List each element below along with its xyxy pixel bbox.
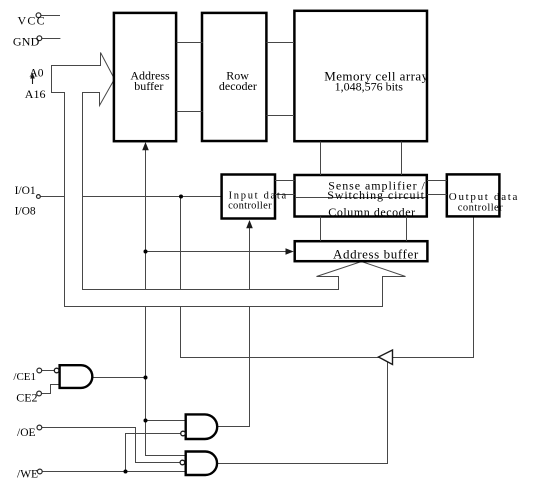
svg-text:GND: GND (13, 35, 40, 49)
svg-text:buffer: buffer (134, 79, 163, 93)
svg-text:/WE: /WE (17, 469, 38, 481)
svg-text:decoder: decoder (219, 79, 257, 93)
svg-text:Column decoder: Column decoder (328, 205, 415, 219)
svg-text:controller: controller (228, 201, 272, 212)
svg-text:I/O8: I/O8 (15, 206, 36, 218)
svg-text:/CE1: /CE1 (13, 371, 36, 383)
svg-text:Output data: Output data (449, 191, 519, 203)
svg-text:VCC: VCC (18, 14, 46, 28)
svg-text:A16: A16 (25, 87, 46, 101)
svg-text:/OE: /OE (17, 427, 36, 439)
svg-text:I/O1: I/O1 (15, 185, 36, 197)
svg-text:Address buffer: Address buffer (333, 247, 419, 262)
svg-text:A0: A0 (29, 68, 43, 80)
svg-text:Switching circuit: Switching circuit (327, 188, 425, 202)
svg-text:1,048,576 bits: 1,048,576 bits (335, 80, 404, 94)
svg-text:CE2: CE2 (16, 391, 37, 405)
svg-text:controller: controller (458, 202, 503, 213)
